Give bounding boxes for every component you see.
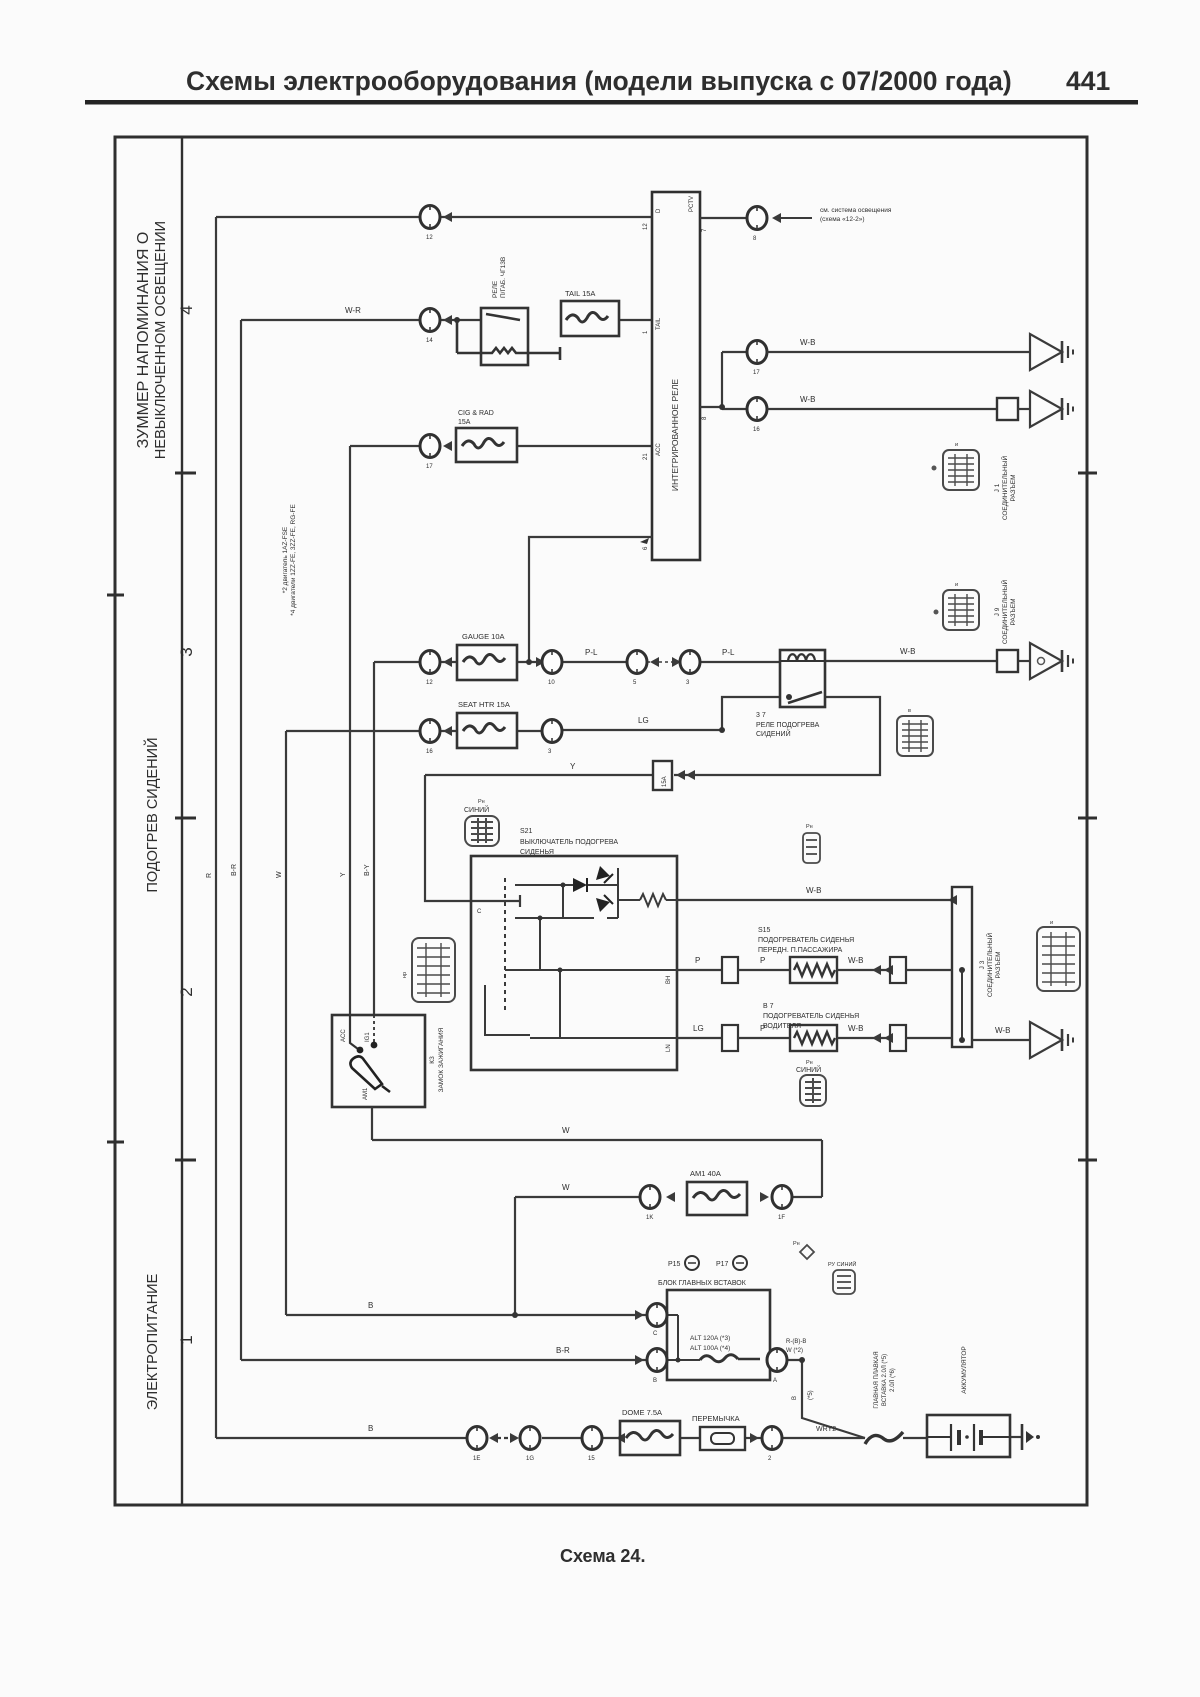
svg-text:1: 1 xyxy=(177,1335,196,1344)
wire row3 CIG xyxy=(350,445,420,447)
wire fuse AM1 left xyxy=(515,1196,639,1198)
wire S21 row4 out xyxy=(677,1037,722,1039)
svg-text:ALT 120A (*3): ALT 120A (*3) xyxy=(690,1335,730,1342)
integrated relay U1 xyxy=(652,192,700,560)
wire row2 to relay K1 xyxy=(440,319,481,321)
arrowhead before connector D (points right) xyxy=(750,1433,759,1443)
wire inline box to ground xyxy=(1018,660,1030,662)
connector bottom A xyxy=(467,1427,487,1450)
svg-text:2: 2 xyxy=(177,987,196,996)
lower internal L xyxy=(485,985,530,1035)
svg-text:Рн: Рн xyxy=(793,1241,800,1247)
svg-text:R-(В)-В: R-(В)-В xyxy=(786,1339,806,1345)
svg-text:В: В xyxy=(368,1424,373,1433)
svg-text:C: C xyxy=(477,909,482,915)
inline box lower xyxy=(997,398,1018,420)
wire battery to ground xyxy=(1010,1436,1022,1438)
arrowhead AM1 left xyxy=(666,1192,675,1202)
conn box S15 left xyxy=(722,957,738,983)
svg-text:D: D xyxy=(656,208,662,213)
svg-text:6: 6 xyxy=(643,546,649,550)
wire to heater B7 xyxy=(738,1037,790,1039)
svg-text:W-B: W-B xyxy=(800,395,815,404)
connector block bottom-left xyxy=(647,1349,667,1372)
arrow into joint bar xyxy=(948,895,957,905)
wire to heater xyxy=(738,969,790,971)
svg-text:СИНИЙ: СИНИЙ xyxy=(464,805,489,814)
svg-text:БЛОК ГЛАВНЫХ ВСТАВОК: БЛОК ГЛАВНЫХ ВСТАВОК xyxy=(658,1280,747,1287)
seat heater relay K2 xyxy=(780,650,825,707)
bus ACC vertical xyxy=(349,446,351,1015)
svg-text:AM1: AM1 xyxy=(363,1087,369,1100)
W-B wire from S21 xyxy=(677,899,952,901)
svg-text:ВСТАВКА 2.0Л (*5): ВСТАВКА 2.0Л (*5) xyxy=(882,1354,888,1406)
svg-text:В: В xyxy=(792,1396,798,1400)
bus W vertical xyxy=(285,731,287,1315)
internal wire second xyxy=(515,917,594,919)
arrowhead right row1 xyxy=(772,213,781,223)
svg-text:и: и xyxy=(1050,920,1053,926)
arrowhead row1 xyxy=(443,212,452,222)
svg-text:РАЗЪЕМ: РАЗЪЕМ xyxy=(1010,599,1017,626)
wire AM1 drop to fuse xyxy=(821,1140,823,1197)
wire LG from fuse xyxy=(517,730,543,732)
wire Y drop into switch xyxy=(425,775,520,901)
fuse F1 TAIL 15A xyxy=(561,301,619,336)
internal vertical x540 xyxy=(539,918,541,970)
relay K1 (small relay) xyxy=(457,308,560,365)
connector right row1 xyxy=(747,207,767,230)
junction dot in bar B7 xyxy=(959,1037,965,1043)
svg-text:DOME 7.5A: DOME 7.5A xyxy=(622,1408,662,1417)
svg-text:TAIL 15A: TAIL 15A xyxy=(565,289,595,298)
battery ground xyxy=(1021,1424,1024,1450)
battery dot xyxy=(965,1435,969,1439)
connector C4 row3 xyxy=(420,435,440,458)
wire bar to ground xyxy=(972,1039,1030,1041)
junction dot LG/coil xyxy=(719,727,725,733)
conn box S15 right xyxy=(890,957,906,983)
wire fuse F1 to relay U1 xyxy=(619,319,652,321)
wire ALT out drop xyxy=(788,1360,865,1438)
connector gauge row xyxy=(420,651,440,674)
internal wire row3 xyxy=(505,969,677,971)
blue connector icon lower xyxy=(800,1075,826,1106)
svg-text:ACC: ACC xyxy=(341,1029,347,1042)
wire U1 bottom pin to gauge row xyxy=(529,537,652,662)
conn box B7 left xyxy=(722,1025,738,1051)
svg-text:4: 4 xyxy=(177,305,196,314)
wire W-B upper to ground xyxy=(767,351,1030,353)
dashed jumper segment xyxy=(497,1437,513,1439)
wire LG to relay coil xyxy=(562,697,780,730)
svg-text:(схема «12-2»): (схема «12-2») xyxy=(820,216,865,223)
svg-text:1K: 1K xyxy=(646,1215,653,1221)
wire diode to resistor xyxy=(618,899,640,901)
wire AM1 horizontal xyxy=(372,1139,822,1141)
internal wire row4 xyxy=(530,1037,677,1039)
wire relay coil right leg xyxy=(674,697,880,775)
joint connector icon J9 xyxy=(943,590,979,630)
arrow into U1 pin6 xyxy=(640,538,649,544)
svg-text:Рн: Рн xyxy=(806,824,813,830)
svg-text:Р15: Р15 xyxy=(668,1261,681,1268)
arrowhead bottom C xyxy=(616,1433,625,1443)
connector block right xyxy=(767,1349,787,1372)
svg-text:BH: BH xyxy=(666,976,672,984)
svg-text:W-B: W-B xyxy=(995,1026,1010,1035)
joint connector bar xyxy=(952,887,972,1047)
svg-text:W: W xyxy=(562,1183,570,1192)
junction dot in bar xyxy=(959,967,965,973)
seat heater switch S21 box xyxy=(471,856,677,1070)
svg-text:1: 1 xyxy=(643,330,649,334)
svg-text:17: 17 xyxy=(753,370,760,376)
diode D1 xyxy=(573,878,587,892)
svg-text:12: 12 xyxy=(426,680,433,686)
svg-text:B-R: B-R xyxy=(556,1346,570,1355)
dot left of J1 icon xyxy=(932,466,937,471)
junction dot gauge/relay stem xyxy=(526,659,532,665)
connector icon near relay K2 xyxy=(897,716,933,756)
arrowhead pair right (points right) xyxy=(672,657,681,667)
arrowhead row3 xyxy=(443,441,452,451)
diode pair D2 (up) xyxy=(596,866,610,880)
svg-text:ИНТЕГРИРОВАННОЕ РЕЛЕ: ИНТЕГРИРОВАННОЕ РЕЛЕ xyxy=(670,379,680,491)
svg-text:B-R: B-R xyxy=(231,864,238,876)
arrowhead seat htr row xyxy=(443,726,452,736)
arrow into gauge right circle (points right) xyxy=(536,657,545,667)
svg-text:SEAT HTR 15A: SEAT HTR 15A xyxy=(458,700,510,709)
connector gauge right xyxy=(542,651,562,674)
fuse F3 GAUGE 10A xyxy=(457,645,517,680)
conn box B7 right xyxy=(890,1025,906,1051)
svg-text:Рн: Рн xyxy=(478,799,485,805)
svg-text:РУ СИНИЙ: РУ СИНИЙ xyxy=(828,1260,856,1268)
svg-text:2.0Л (*6): 2.0Л (*6) xyxy=(890,1368,896,1392)
svg-text:21: 21 xyxy=(643,453,649,460)
junction dot block xyxy=(676,1358,681,1363)
svg-text:LN: LN xyxy=(666,1044,672,1052)
svg-text:ПОДОГРЕВ СИДЕНИЙ: ПОДОГРЕВ СИДЕНИЙ xyxy=(143,737,161,892)
svg-text:S21: S21 xyxy=(520,828,533,835)
svg-text:РАЗЪЕМ: РАЗЪЕМ xyxy=(995,952,1002,979)
battery box xyxy=(927,1415,1010,1457)
svg-text:3: 3 xyxy=(686,680,690,686)
wire S21 row3 out xyxy=(677,969,722,971)
bus B1 vertical xyxy=(215,217,217,1438)
main fusible link squiggle xyxy=(865,1432,903,1444)
ignition switch box xyxy=(332,1015,425,1107)
wire W-B lower xyxy=(767,408,997,410)
inline fuse 15A vertical xyxy=(653,761,672,790)
internal vertical to diode pair xyxy=(562,885,564,918)
svg-text:Схемы электрооборудования (мод: Схемы электрооборудования (модели выпуск… xyxy=(186,66,1012,96)
svg-text:1G: 1G xyxy=(526,1456,534,1462)
wire gauge fuse to connector xyxy=(517,661,543,663)
svg-text:TAIL: TAIL xyxy=(656,317,662,330)
connector AM1 right xyxy=(772,1186,792,1209)
S21 internals xyxy=(485,868,677,1038)
arrowhead into block bottom (points right) xyxy=(635,1355,644,1365)
svg-text:W-B: W-B xyxy=(800,338,815,347)
svg-text:S15: S15 xyxy=(758,927,771,934)
svg-text:8: 8 xyxy=(753,236,757,242)
fusible link squiggle inside block xyxy=(700,1355,738,1362)
small connector icon P bottom 2 xyxy=(833,1270,855,1294)
tiny circle in triangle xyxy=(1038,658,1045,665)
bus B2 vertical xyxy=(240,320,242,1360)
wire stub to note xyxy=(779,217,812,219)
svg-text:1E: 1E xyxy=(473,1456,480,1462)
wire conn D to fusible link xyxy=(783,1437,865,1439)
tick right edge y818 xyxy=(1078,817,1097,820)
svg-text:и: и xyxy=(955,582,958,588)
svg-text:W-B: W-B xyxy=(900,647,915,656)
arrowhead pair left (points left) xyxy=(650,657,659,667)
svg-text:15A: 15A xyxy=(662,776,668,787)
main fusible block box xyxy=(667,1290,770,1380)
svg-text:W: W xyxy=(276,871,283,878)
diode pair D3 (down) xyxy=(596,898,610,912)
arrowhead gauge row xyxy=(443,657,452,667)
connector seat htr row xyxy=(420,720,440,743)
svg-text:ALT 100A (*4): ALT 100A (*4) xyxy=(690,1345,730,1352)
header rule xyxy=(85,100,1138,105)
svg-text:W-R: W-R xyxy=(345,306,361,315)
ignition ACC contact xyxy=(350,1015,358,1049)
svg-text:Y: Y xyxy=(340,872,347,877)
dashed selector line xyxy=(504,878,506,1012)
svg-text:ПОДОГРЕВАТЕЛЬ СИДЕНЬЯ: ПОДОГРЕВАТЕЛЬ СИДЕНЬЯ xyxy=(763,1013,859,1020)
ignition key symbol xyxy=(350,1056,390,1092)
ground G3 xyxy=(1030,643,1073,679)
heater element B7 xyxy=(790,1025,837,1051)
junction dot relay K1 feed xyxy=(454,317,460,323)
svg-text:W-B: W-B xyxy=(806,886,821,895)
svg-text:СОЕДИНИТЕЛЬНЫЙ: СОЕДИНИТЕЛЬНЫЙ xyxy=(1000,456,1009,521)
svg-text:ЭЛЕКТРОПИТАНИЕ: ЭЛЕКТРОПИТАНИЕ xyxy=(145,1273,161,1410)
fuse F4 SEAT HTR 15A xyxy=(457,713,517,748)
svg-text:12: 12 xyxy=(426,235,433,241)
svg-text:J 3: J 3 xyxy=(979,960,986,969)
wire U1 right row2 stem xyxy=(700,352,747,409)
svg-text:WRY2: WRY2 xyxy=(816,1426,836,1433)
svg-text:P: P xyxy=(695,956,700,965)
tiny pin numbers under connectors xyxy=(426,235,785,1462)
svg-text:A: A xyxy=(773,1378,777,1384)
tick divider y821 xyxy=(175,817,196,820)
svg-text:LG: LG xyxy=(638,716,649,725)
connector AM1 left xyxy=(640,1186,660,1209)
small connector icon P bottom 1 xyxy=(800,1245,814,1259)
svg-text:B-Y: B-Y xyxy=(364,864,371,876)
wire row2 W-R xyxy=(241,319,420,321)
battery cells xyxy=(927,1424,1010,1451)
arrowhead into block top (points right) xyxy=(635,1310,644,1320)
svg-text:1F: 1F xyxy=(778,1215,785,1221)
svg-text:W-B: W-B xyxy=(848,1024,863,1033)
wire gauge row left xyxy=(374,661,420,663)
fuse DOME 7.5A xyxy=(620,1421,680,1455)
connector pair 1 xyxy=(627,651,647,674)
svg-text:РЕЛЕ ПОДОГРЕВА: РЕЛЕ ПОДОГРЕВА xyxy=(756,722,820,729)
tick right edge y473 xyxy=(1078,472,1097,475)
wire pair to seat relay xyxy=(647,661,672,663)
svg-text:J 1: J 1 xyxy=(994,483,1001,492)
svg-text:Рн: Рн xyxy=(806,1060,813,1066)
svg-text:P-L: P-L xyxy=(585,648,598,657)
internal wire top xyxy=(515,884,573,886)
svg-text:2: 2 xyxy=(768,1456,772,1462)
wire row y1360 xyxy=(241,1359,646,1361)
svg-text:W (*2): W (*2) xyxy=(786,1348,803,1354)
svg-text:Схема 24.: Схема 24. xyxy=(560,1546,645,1566)
svg-text:АККУМУЛЯТОР: АККУМУЛЯТОР xyxy=(961,1346,968,1393)
svg-text:16: 16 xyxy=(426,749,433,755)
wire conn C to fuse DOME xyxy=(603,1437,620,1439)
svg-text:ВЫКЛЮЧАТЕЛЬ ПОДОГРЕВА: ВЫКЛЮЧАТЕЛЬ ПОДОГРЕВА xyxy=(520,839,618,846)
ground G4 xyxy=(1030,1022,1073,1058)
arrowheads B7 xyxy=(872,1033,881,1043)
wire row1 top xyxy=(216,216,420,218)
svg-text:12: 12 xyxy=(643,223,649,230)
wire gauge circle to fuse xyxy=(440,661,457,663)
svg-text:15: 15 xyxy=(588,1456,595,1462)
connector icon right of heaters xyxy=(1037,927,1080,991)
svg-text:*4 двигатели 1ZZ-FE, 3ZZ-FE, R: *4 двигатели 1ZZ-FE, 3ZZ-FE, RG-FE xyxy=(290,504,297,616)
svg-text:16: 16 xyxy=(753,427,760,433)
wire to joint bar B7 xyxy=(906,1037,952,1039)
small connector icon mid right xyxy=(803,833,820,863)
svg-text:и: и xyxy=(955,442,958,448)
svg-text:R: R xyxy=(206,873,213,878)
svg-text:*2 двигатель 1AZ-FSE: *2 двигатель 1AZ-FSE xyxy=(282,526,289,593)
svg-text:СИДЕНИЙ: СИДЕНИЙ xyxy=(756,729,791,738)
wire drop x515 xyxy=(514,1197,516,1315)
wire seat htr circle to fuse xyxy=(440,730,457,732)
svg-text:7: 7 xyxy=(702,228,708,232)
wire seat relay right W-B xyxy=(825,660,997,662)
ignition IG1 contact xyxy=(373,1015,375,1042)
svg-text:P: P xyxy=(760,1024,765,1033)
connector seat htr right xyxy=(542,720,562,743)
svg-text:15A: 15A xyxy=(458,419,471,426)
connector W-B upper xyxy=(747,341,767,364)
svg-text:CIG & RAD: CIG & RAD xyxy=(458,410,494,417)
svg-text:В: В xyxy=(368,1301,373,1310)
svg-text:П/ГАБ. ЧГ13В: П/ГАБ. ЧГ13В xyxy=(500,257,507,298)
svg-text:P: P xyxy=(760,956,765,965)
connector bottom C xyxy=(582,1427,602,1450)
wire heater to conn xyxy=(837,969,890,971)
arrowhead AM1 right (points right) xyxy=(760,1192,769,1202)
vertical link inside bar xyxy=(961,970,963,1040)
svg-text:СОЕДИНИТЕЛЬНЫЙ: СОЕДИНИТЕЛЬНЫЙ xyxy=(1000,580,1009,645)
blue connector icon S21 xyxy=(465,816,499,846)
tick left edge y595 xyxy=(107,594,124,597)
arrowheads xyxy=(872,965,881,975)
vertical joining diodes xyxy=(617,868,619,918)
connector pair 2 xyxy=(680,651,700,674)
svg-text:GAUGE 10A: GAUGE 10A xyxy=(462,632,505,641)
jumper inner slot xyxy=(711,1433,734,1444)
svg-text:см. система освещения: см. система освещения xyxy=(820,207,892,214)
svg-text:в: в xyxy=(908,708,911,714)
svg-text:СОЕДИНИТЕЛЬНЫЙ: СОЕДИНИТЕЛЬНЫЙ xyxy=(985,933,994,998)
wire resistor to edge xyxy=(666,899,677,901)
ground G1 xyxy=(1030,334,1073,370)
svg-text:3: 3 xyxy=(177,647,196,656)
internal vertical x560 xyxy=(559,970,561,1038)
wire row y1315 xyxy=(286,1314,647,1316)
tick left edge y1142 xyxy=(107,1141,124,1144)
wire U1 right row1 xyxy=(700,217,747,219)
wire row1 to relay U1 xyxy=(440,216,652,218)
tick divider y1165 xyxy=(175,1159,196,1162)
svg-text:РЕЛЕ: РЕЛЕ xyxy=(492,280,499,298)
junction dot row2 xyxy=(719,404,725,410)
svg-text:ПЕРЕМЫЧКА: ПЕРЕМЫЧКА xyxy=(692,1414,740,1423)
jumper box xyxy=(700,1427,745,1450)
wire jumper to conn D xyxy=(745,1437,761,1439)
svg-text:IG1: IG1 xyxy=(365,1032,371,1042)
svg-text:В 7: В 7 xyxy=(763,1003,774,1010)
wire AM1 down xyxy=(371,1107,373,1140)
connector W-B lower xyxy=(747,398,767,421)
wire heater B7 to conn xyxy=(837,1037,890,1039)
arrowhead row2 xyxy=(443,315,452,325)
svg-text:3: 3 xyxy=(548,749,552,755)
svg-text:ПЕРЕДН. П.ПАССАЖИРА: ПЕРЕДН. П.ПАССАЖИРА xyxy=(758,947,843,954)
wire fusible link to battery xyxy=(903,1437,927,1439)
wire box to ground G2 xyxy=(1018,408,1030,410)
wire Y row with inline fuse xyxy=(425,774,653,776)
tick divider y481 xyxy=(175,472,196,475)
dot left of J9 icon xyxy=(934,610,939,615)
svg-text:СИНИЙ: СИНИЙ xyxy=(796,1065,821,1074)
svg-text:PCTV: PCTV xyxy=(689,196,695,212)
svg-text:W: W xyxy=(562,1126,570,1135)
svg-text:8: 8 xyxy=(702,416,708,420)
wire bottom row from bus1 xyxy=(216,1437,466,1439)
wire conn B to C xyxy=(542,1437,581,1439)
fuse AM1 40A xyxy=(687,1182,747,1215)
svg-text:НЕВЫКЛЮЧЕННОМ ОСВЕЩЕНИИ: НЕВЫКЛЮЧЕННОМ ОСВЕЩЕНИИ xyxy=(153,221,169,459)
ground G2 xyxy=(1030,391,1073,427)
wire to joint bar xyxy=(906,969,952,971)
junction dot ALT out xyxy=(799,1357,805,1363)
svg-text:5: 5 xyxy=(633,680,637,686)
resistor R1 zigzag xyxy=(640,894,666,906)
connector block top-left xyxy=(647,1304,667,1327)
svg-text:АМ1 40А: АМ1 40А xyxy=(690,1169,721,1178)
connector bottom B xyxy=(520,1427,540,1450)
bus IG1 vertical xyxy=(373,662,375,1015)
connector C4 row2 xyxy=(420,309,440,332)
svg-text:нр: нр xyxy=(402,972,408,978)
svg-text:РАЗЪЕМ: РАЗЪЕМ xyxy=(1010,475,1017,502)
svg-text:ACC: ACC xyxy=(656,443,662,456)
svg-text:LG: LG xyxy=(693,1024,704,1033)
svg-text:ГЛАВНАЯ ПЛАВКАЯ: ГЛАВНАЯ ПЛАВКАЯ xyxy=(874,1351,880,1408)
svg-text:441: 441 xyxy=(1066,66,1110,96)
inline box seat relay gnd xyxy=(997,650,1018,672)
double arrowheads xyxy=(676,770,685,780)
svg-text:Р17: Р17 xyxy=(716,1261,729,1268)
svg-text:B: B xyxy=(653,1378,657,1384)
svg-text:К3: К3 xyxy=(429,1056,436,1064)
